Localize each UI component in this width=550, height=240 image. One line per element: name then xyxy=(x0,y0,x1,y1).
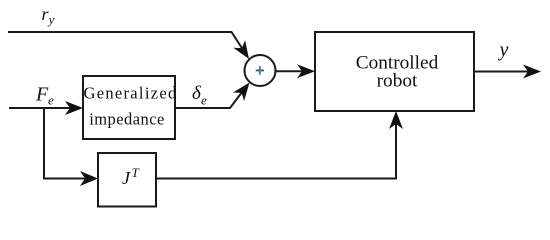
svg-text:J: J xyxy=(122,168,131,188)
svg-text:Generalized: Generalized xyxy=(84,84,178,103)
svg-text:e: e xyxy=(48,93,54,108)
svg-text:y: y xyxy=(47,12,55,27)
svg-text:e: e xyxy=(201,93,207,108)
svg-text:impedance: impedance xyxy=(89,110,165,129)
svg-text:T: T xyxy=(132,165,140,180)
svg-text:y: y xyxy=(498,39,509,61)
svg-text:F: F xyxy=(35,84,49,106)
svg-text:robot: robot xyxy=(377,70,418,91)
